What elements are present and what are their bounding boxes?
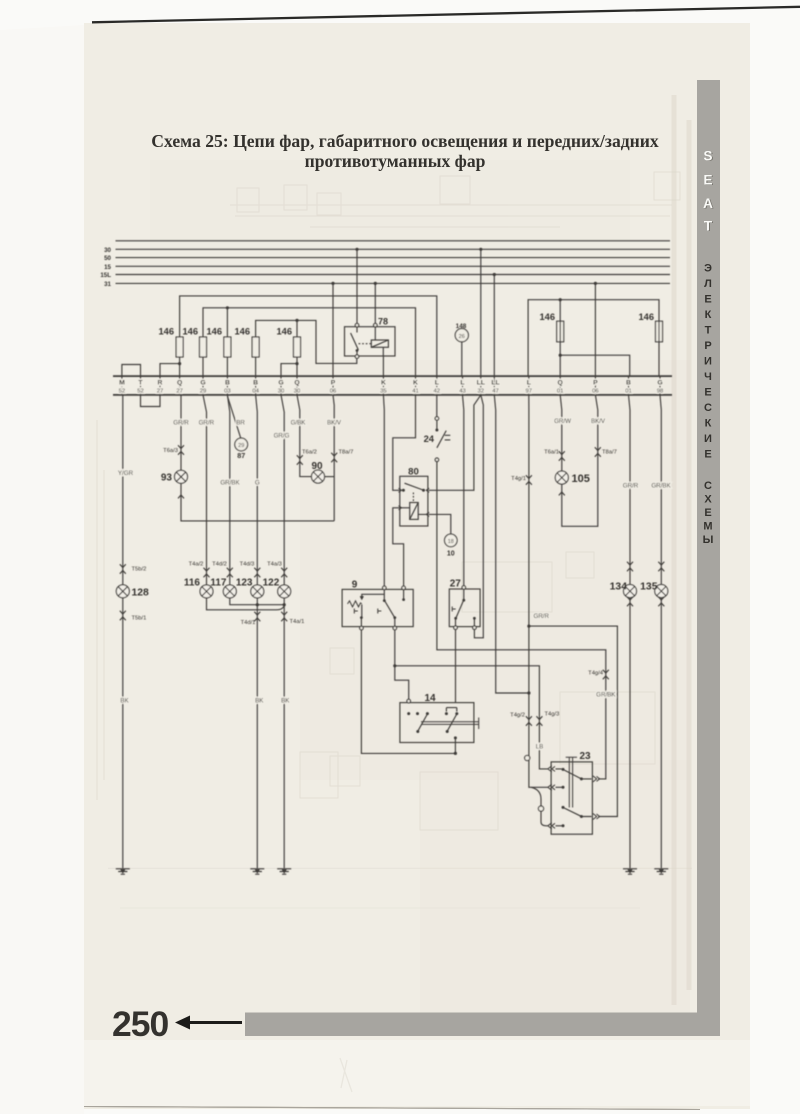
svg-text:BK/V: BK/V [327,420,342,427]
wire Q/27 GR/R to lamp 93 and to x335 rail [181,395,334,521]
svg-text:Е: Е [704,449,711,461]
fuse S146 no.3 [224,337,231,357]
relay 78 [345,317,396,359]
svg-text:G: G [278,379,283,386]
bottom page edge [84,1107,700,1110]
connector LL/32 [480,376,482,395]
wire LL/47 down to fog-switch feed junction [494,395,529,693]
wire fuse1 bottom to connector Q/27 [179,357,181,376]
svg-text:134: 134 [610,582,628,593]
svg-text:T5b/1: T5b/1 [132,616,147,622]
svg-text:03: 03 [224,388,231,394]
rail L/97 to fuses 6 and 7 [528,300,659,376]
svg-text:T: T [704,219,713,234]
svg-text:Y/GR: Y/GR [118,470,134,477]
page arrow [175,1016,242,1030]
relay 80 [399,466,430,526]
connector L/43 [462,376,464,395]
inline connector T4a/2 [204,568,210,578]
fuse S146 right no.7 [656,321,663,342]
svg-text:BR: BR [236,420,245,427]
svg-text:31: 31 [104,281,111,288]
wire B/01 GR/R to lamp 134 [629,395,631,585]
svg-text:С: С [704,402,712,414]
svg-text:78: 78 [378,317,388,327]
light switch 9 [342,579,413,630]
svg-text:BK: BK [255,697,264,704]
svg-text:06: 06 [330,388,337,394]
fuse S146 no.1 [176,337,183,357]
svg-text:27: 27 [450,579,462,590]
wire lamp123 to ground via T4d/1 [256,598,258,868]
connector L/97 [528,376,530,395]
svg-text:18: 18 [448,539,454,545]
inline connector T6a/2 [297,455,303,465]
wire lamp 135 to ground [660,598,662,869]
svg-text:30: 30 [104,247,111,254]
svg-text:BK/V: BK/V [591,418,606,425]
wire B/03 diagonal to terminal 29/87 [227,396,240,438]
svg-text:T6a/3: T6a/3 [163,448,178,454]
svg-text:87: 87 [237,451,245,460]
fuse 148/26 [455,323,468,376]
svg-text:LB: LB [536,743,544,750]
connector M/52 [121,376,123,395]
rail fuse6 bottom to connector B/01 [560,355,630,376]
svg-text:T6a/1: T6a/1 [544,449,559,455]
connector P/06 right [594,376,596,395]
switch 27 front fog lamp switch [449,579,480,630]
svg-text:T6a/2: T6a/2 [302,449,317,455]
svg-text:LL: LL [491,379,499,386]
svg-text:90: 90 [311,461,323,472]
wire relay 78 coil to connector K/35 [382,356,384,376]
connector G/29 [202,376,204,395]
wire lamp122 to ground via T4a/1 [283,598,285,868]
bridge G/30 to Q/30 [281,364,297,377]
inline connector T4d/3 [254,568,260,578]
wire relay 80 coil to light switch 9 right pin [393,508,404,587]
wire dimmer 14 output to rail [454,743,456,754]
wire switch 9 left pin to rail under dimmer 14 [361,630,455,754]
svg-text:GR/BK: GR/BK [651,482,671,489]
svg-text:GR/R: GR/R [534,613,550,620]
fuse S146 no.5 [294,337,301,357]
svg-text:T8a/7: T8a/7 [339,449,354,455]
wire B/03 GR/BK down to lamp 117 [227,395,229,585]
bulb 123 [251,585,264,598]
svg-text:04: 04 [252,388,259,394]
svg-text:Т: Т [705,325,712,337]
svg-text:T4d/3: T4d/3 [240,562,255,568]
wire switch 27 left pin to dimmer relay 14 [455,630,457,703]
ghost bleed-through of reverse page [97,172,692,908]
svg-text:A: A [703,196,713,211]
wire fuse4 bottom to connector B/04 [255,357,257,376]
svg-text:T4g/1: T4g/1 [511,476,526,482]
svg-text:14: 14 [424,693,436,704]
svg-text:9: 9 [352,579,358,590]
svg-text:K: K [381,379,386,386]
svg-text:L: L [460,379,464,386]
bus bar unlabeled [116,240,671,242]
inline connector T4g/4 [603,670,609,680]
fuse S146 no.4 [252,337,259,357]
rail fuse2 and fuse3 tops to connector K/41 [203,308,416,376]
connector L/42 [436,376,438,395]
svg-text:B: B [253,379,258,386]
wire L/97 GR/R down through T4g/1 [529,395,548,787]
sidebar grey strip [697,80,720,1036]
bridge R/27 to Q/27 [160,364,180,377]
wire K/35 to light switch 9 [382,395,385,586]
svg-text:GR/W: GR/W [554,418,571,425]
svg-text:15: 15 [104,264,111,271]
svg-text:T4g/4: T4g/4 [588,670,604,676]
svg-text:146: 146 [182,327,198,337]
sidebar text ЭЛЕКТРИЧЕСКИЕ [704,263,712,461]
inline connector T4g/3 [536,716,542,726]
connector Q/27 [179,376,181,395]
bulb 135 front fog right [655,585,668,598]
bulb 117 [223,585,236,598]
faint smudge bottom center [340,1058,352,1092]
svg-text:146: 146 [234,327,250,337]
connector B/03 [226,376,228,395]
svg-text:B: B [225,379,230,386]
wire bus31 to connector P/06 right [594,283,596,376]
svg-text:Ч: Ч [704,371,712,383]
wire colour O [525,755,530,760]
svg-text:146: 146 [276,327,292,337]
rail fuse4 and fuse5 tops to relay 78 output [256,320,357,363]
inline connector above lamp 134 [627,562,633,572]
bulb 122 [278,585,291,598]
svg-text:10: 10 [447,550,455,557]
svg-text:К: К [705,418,712,430]
fuse S146 no.2 [200,337,207,357]
svg-text:97: 97 [526,388,533,394]
top scan edge diagonal line [92,7,800,22]
svg-text:01: 01 [557,388,564,394]
SEAT logo letters [703,149,714,235]
inline connector T5b/1 [120,611,126,621]
connector B/01 [628,376,630,395]
svg-text:01: 01 [625,388,632,394]
svg-text:Р: Р [704,340,711,352]
wire switch 24 down to T4g/4 and fog switch 23 right pin 1 [437,462,606,779]
svg-text:135: 135 [640,582,658,593]
wire bus31 to connector P/06 left [332,283,334,376]
wire bus15L to connector LL/47 [493,275,495,377]
svg-text:30: 30 [294,388,301,394]
svg-text:T4d/2: T4d/2 [212,562,227,568]
svg-text:G: G [200,379,205,386]
wire switch 9 right pin junction to T4g/3 and fog switch 23 left pin1 [395,630,548,769]
bridge T/52 to R/27 below row [141,395,161,407]
svg-text:GR/R: GR/R [173,420,189,427]
svg-text:146: 146 [638,312,654,322]
svg-text:52: 52 [119,388,126,394]
svg-text:24: 24 [424,433,435,444]
wire L/43 to switch 27 [463,395,464,586]
inline connector T8a/7 right [595,447,601,457]
wire fuse5 bottom to connector Q/30 [296,357,298,376]
rail lamp117 bottom to wires T4d/1 T4a/1 [230,598,284,605]
rail lamp116 bottom joining right [207,598,285,610]
svg-text:BK: BK [120,697,129,704]
connector Q/30 [296,376,298,395]
svg-text:105: 105 [572,473,590,485]
wire bus30 to connector LL/32 [480,249,482,376]
svg-text:29: 29 [200,388,207,394]
svg-text:148: 148 [456,323,467,330]
svg-text:146: 146 [539,312,555,322]
wire fuse2 bottom to connector G/29 [202,357,204,376]
svg-text:Е: Е [704,507,711,519]
inline connector T8a/7 left [331,453,337,463]
switch 24 front fog switch contact [424,420,451,461]
connector G/98 [659,376,661,395]
svg-text:М: М [703,521,712,533]
wire P/06 BK/V through T8a/7 to lamp 105 bottom [562,395,598,526]
svg-text:T4a/1: T4a/1 [290,619,305,625]
svg-text:Э: Э [704,263,712,275]
svg-text:146: 146 [206,327,222,337]
svg-text:117: 117 [210,577,227,588]
wire G/29 GR/R down to lamp 116 [203,395,207,585]
wire G/30 GR/G down to lamp 122 [281,395,284,585]
wire LL/32 to relay 80 output [429,395,481,490]
svg-text:43: 43 [459,388,466,394]
svg-text:50: 50 [104,255,111,262]
wire K/41 to relay 80 input [393,395,416,490]
svg-text:M: M [119,379,125,386]
wire lamp 134 to ground [629,598,631,869]
svg-text:P: P [331,379,336,386]
svg-text:123: 123 [236,577,253,588]
svg-text:Е: Е [704,387,711,399]
fuse 18/10 [445,534,458,547]
svg-text:GR/BK: GR/BK [220,479,240,486]
svg-text:GR/R: GR/R [199,420,215,427]
svg-text:T4d/1: T4d/1 [241,620,256,626]
svg-text:80: 80 [408,466,419,477]
svg-text:Схема 25: Цепи фар, габаритног: Схема 25: Цепи фар, габаритного освещени… [151,131,659,151]
svg-text:98: 98 [657,388,664,394]
svg-text:B: B [626,379,631,386]
svg-text:41: 41 [412,388,419,394]
branch curve to fog switch 23 left pin 3 [531,787,548,826]
inline connector above lamp 135 [658,562,664,572]
wire fuse6 to connector Q/01 [559,300,561,376]
svg-text:S: S [703,149,712,164]
wire bus31 to relay 78 coil pin [374,283,376,324]
svg-text:Е: Е [704,294,711,306]
connector row strip [113,376,672,395]
svg-text:GR/BK: GR/BK [596,691,616,698]
svg-text:T8a/7: T8a/7 [602,449,617,455]
sidebar text СХЕМЫ [703,480,714,546]
bus 15L [116,274,671,276]
svg-text:27: 27 [157,388,164,394]
svg-text:E: E [703,173,712,188]
svg-text:T4a/3: T4a/3 [267,562,282,568]
connector K/41 [415,376,417,395]
bulb 93 fog lamp left [175,470,188,483]
ground left [116,869,130,874]
inline connector T6a/1 [559,451,565,461]
svg-text:LL: LL [477,379,485,386]
inline connector T4a/3 [281,568,287,578]
svg-text:23: 23 [579,751,591,762]
svg-text:Q: Q [177,379,182,386]
svg-text:30: 30 [278,388,285,394]
svg-text:T5b/2: T5b/2 [132,567,147,573]
fuse S146 right no.6 [557,321,564,342]
svg-text:15L: 15L [100,272,111,279]
svg-text:Л: Л [704,278,712,290]
svg-text:52: 52 [137,388,144,394]
connector K/35 [382,376,384,395]
svg-text:93: 93 [161,473,173,484]
wire Q/30 G/BK to lamp 90 left [297,395,311,477]
connector P/06 left [332,376,334,395]
svg-text:42: 42 [434,388,441,394]
connector LL/47 [493,376,495,395]
svg-text:И: И [704,356,712,368]
wire M/52 Y/GR to lamp 128 [122,395,124,868]
fog light switch 23 [548,751,600,834]
connector Q/01 [559,376,561,395]
bulb 116 [200,585,213,598]
wire bus30 to relay 78 switch pin [356,249,358,324]
dimmer relay 14 [400,693,479,743]
ground centre right [277,869,291,874]
bulb 134 front fog left [624,585,637,598]
svg-text:T4g/2: T4g/2 [510,712,525,718]
svg-text:К: К [705,309,712,321]
inline connector T4d/2 [227,568,233,578]
svg-text:G: G [255,479,260,486]
svg-text:146: 146 [158,327,174,337]
wire G/98 GR/BK to lamp 135 [660,395,661,585]
bridge M/52 to T/52 [122,365,141,377]
connector T/52 [140,376,142,395]
connector G/30 [280,376,282,395]
ghost text columns near sidebar [674,95,689,1005]
wire relay 80 coil to fuse 18/10 [429,514,451,533]
inline connector T4g/2 [526,716,532,726]
wire B/04 G down to lamp 123 [256,395,258,585]
bulb 90 fog lamp [325,476,335,478]
svg-text:противотуманных фар: противотуманных фар [305,151,486,171]
connector B/04 [255,376,257,395]
svg-text:32: 32 [478,388,485,394]
bulb 128 side light left [116,585,129,598]
svg-text:T4g/3: T4g/3 [545,711,560,717]
branch L/97 to fog switch 23 right pin 2 [529,626,618,816]
svg-text:GR/G: GR/G [274,432,290,439]
svg-text:K: K [413,379,418,386]
svg-text:P: P [593,379,598,386]
wire L/42 to switch 24 [436,395,438,417]
rail fuse1 top to connector L/42 [180,296,437,376]
svg-text:BK: BK [281,697,290,704]
inline connector T5b/2 [120,564,126,574]
svg-text:И: И [704,433,712,445]
svg-text:122: 122 [263,577,280,588]
bottom grey bar [245,1013,720,1037]
svg-text:G: G [657,379,662,386]
svg-text:47: 47 [492,388,499,394]
svg-text:35: 35 [380,388,387,394]
bus 50 [116,257,671,259]
bus 30 [116,248,671,250]
wire Q/01 GR/W to lamp 105 [560,395,562,471]
svg-text:Q: Q [558,379,563,386]
wire switch 27 right pin to LL/32 [474,395,483,638]
bus 15 [116,265,671,267]
svg-text:06: 06 [592,388,599,394]
connector R/27 [159,376,161,395]
svg-text:29: 29 [238,443,244,449]
wire switch 9 right pin to dimmer relay 14 top [395,666,409,701]
svg-text:128: 128 [132,588,150,599]
wire P/06 BK/V down through T8a/7 to lamp 90 right [333,395,334,521]
bulb 105 rear fog lamp [555,471,568,484]
svg-text:R: R [158,379,163,386]
svg-text:116: 116 [184,577,201,588]
svg-text:Х: Х [704,494,712,506]
svg-text:Q: Q [294,379,299,386]
inline connector T6a/3 [178,445,184,455]
bus 31 [116,282,671,284]
svg-text:Ы: Ы [703,534,714,546]
ground centre left [250,869,264,874]
svg-text:26: 26 [459,334,465,340]
svg-text:GR/R: GR/R [623,482,639,489]
svg-text:27: 27 [176,388,183,394]
svg-text:250: 250 [112,1004,168,1044]
svg-text:T4a/2: T4a/2 [189,562,204,568]
svg-text:L: L [527,379,531,386]
svg-text:С: С [704,480,712,492]
wire fuse3 bottom to connector B/03 [226,357,228,376]
svg-text:L: L [435,379,439,386]
svg-text:G/BK: G/BK [291,420,307,427]
